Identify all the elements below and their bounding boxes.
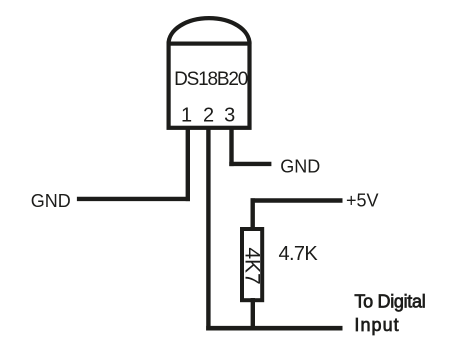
bottom data wire to digital input <box>206 326 342 331</box>
svg-text:GND: GND <box>280 157 320 177</box>
svg-text:4K7: 4K7 <box>241 247 264 284</box>
pin 2 data lead wire <box>206 126 210 331</box>
svg-text:+5V: +5V <box>346 191 379 211</box>
svg-text:GND: GND <box>31 191 71 211</box>
wire +5V to resistor R1 top <box>250 198 254 229</box>
wire pin 1 to left GND <box>77 197 190 201</box>
sensor U1 body (TO-92 rectangle) <box>169 44 250 128</box>
pin 1 lead wire <box>186 126 190 201</box>
resistor R1 body <box>242 229 262 300</box>
wire resistor R1 bottom to data wire <box>251 298 255 331</box>
wire pin 3 to right GND <box>229 162 271 166</box>
svg-text:3: 3 <box>224 105 235 127</box>
svg-text:2: 2 <box>203 105 214 127</box>
+5V supply wire <box>251 198 343 202</box>
svg-text:DS18B20: DS18B20 <box>174 69 248 90</box>
svg-text:1: 1 <box>181 105 192 127</box>
sensor U1 dome (TO-92 top arc) <box>169 18 250 43</box>
svg-text:To Digital: To Digital <box>354 292 425 312</box>
svg-text:4.7K: 4.7K <box>279 243 319 265</box>
svg-text:Input: Input <box>354 315 399 335</box>
pin 3 lead wire <box>229 126 233 166</box>
